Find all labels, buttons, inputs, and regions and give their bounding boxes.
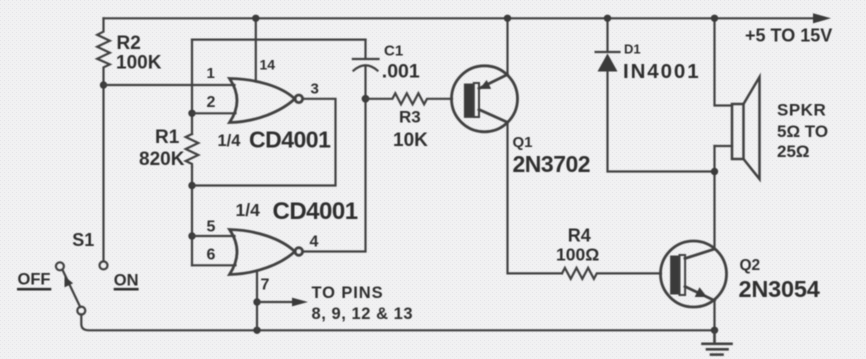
node pin7 bottom rail — [253, 327, 260, 334]
node pin2 — [188, 110, 195, 117]
wire pin6 input — [192, 264, 236, 266]
svg-text:OFF: OFF — [18, 271, 51, 289]
op-amp gate U1B NOR 1/4 CD4001 — [230, 230, 303, 275]
wire left vertical with R1 — [191, 40, 193, 134]
svg-text:.001: .001 — [382, 60, 420, 82]
svg-text:CD4001: CD4001 — [273, 198, 358, 225]
svg-text:6: 6 — [207, 247, 216, 264]
wire bottom rail — [81, 314, 714, 330]
svg-text:R3: R3 — [399, 107, 421, 126]
node Q2 emitter bottom rail — [711, 327, 718, 334]
svg-text:8, 9, 12 & 13: 8, 9, 12 & 13 — [312, 305, 414, 323]
node R1 bottom feedback — [188, 182, 195, 189]
wire pin5 input — [192, 235, 235, 237]
op-amp gate U1A NOR 1/4 CD4001 — [230, 79, 303, 123]
wire pin4 output up to C1 node — [303, 99, 366, 252]
svg-text:25Ω: 25Ω — [777, 142, 810, 161]
node C1-R3-pin4 — [362, 95, 370, 103]
speaker SPKR — [715, 18, 733, 105]
svg-text:4: 4 — [310, 233, 319, 250]
svg-text:5Ω TO: 5Ω TO — [777, 122, 828, 141]
wire Q2 collector up to speaker — [713, 146, 715, 249]
resistor R1 — [186, 134, 199, 167]
svg-text:ON: ON — [114, 271, 139, 289]
wire top rail +V — [104, 17, 818, 19]
diode D1 1N4001 — [606, 18, 608, 51]
svg-text:1: 1 — [207, 65, 215, 82]
svg-text:IN4001: IN4001 — [623, 60, 701, 83]
transistor Q2 2N3054 — [661, 241, 727, 307]
svg-text:TO PINS: TO PINS — [312, 284, 384, 302]
ground — [703, 330, 732, 354]
wire Q1 emitter to rail — [506, 18, 508, 74]
svg-text:R2: R2 — [117, 33, 141, 54]
wire feedback top line to C1 — [192, 38, 366, 40]
wire Q2 emitter to bottom rail — [713, 301, 715, 331]
resistor R3 — [366, 93, 453, 104]
node D1 rail — [604, 15, 611, 22]
node pin7 to-pins junction — [253, 298, 260, 305]
svg-text:3: 3 — [311, 80, 319, 97]
svg-text:2N3702: 2N3702 — [513, 151, 591, 177]
svg-text:1/4: 1/4 — [218, 132, 242, 150]
wire pin14 — [255, 18, 257, 81]
svg-text:2: 2 — [207, 94, 216, 111]
wire to-pins arrow — [257, 301, 295, 303]
switch S1 — [100, 261, 108, 269]
svg-text:D1: D1 — [624, 42, 641, 57]
svg-text:+5 TO 15V: +5 TO 15V — [745, 26, 832, 46]
svg-text:R1: R1 — [155, 127, 180, 148]
Q1 emitter arrow (PNP) — [480, 80, 492, 89]
node Q1 emitter rail — [504, 15, 511, 22]
node R2-pin1-switch junction — [100, 81, 107, 88]
svg-text:820K: 820K — [139, 149, 185, 170]
svg-text:SPKR: SPKR — [777, 101, 826, 120]
wire pin7 — [256, 273, 258, 331]
svg-text:14: 14 — [260, 57, 276, 73]
svg-text:C1: C1 — [384, 43, 403, 60]
svg-text:CD4001: CD4001 — [249, 127, 331, 153]
svg-text:5: 5 — [207, 219, 216, 236]
svg-text:S1: S1 — [72, 230, 94, 250]
svg-text:2N3054: 2N3054 — [739, 276, 820, 302]
wire Q1 collector down to R4 — [508, 122, 563, 273]
resistor R2 — [97, 18, 110, 260]
svg-text:100K: 100K — [116, 53, 162, 74]
svg-text:10K: 10K — [393, 130, 428, 151]
svg-text:1/4: 1/4 — [236, 200, 261, 220]
transistor Q1 2N3702 — [452, 66, 518, 132]
capacitor C1 — [364, 40, 366, 59]
svg-text:7: 7 — [261, 277, 270, 294]
label ON underline — [114, 288, 139, 291]
wire pin1 input — [104, 84, 235, 86]
node pin14 rail — [252, 15, 259, 22]
svg-text:R4: R4 — [568, 226, 591, 246]
svg-text:Q2: Q2 — [740, 257, 761, 274]
Q2 emitter arrow (NPN) — [695, 287, 707, 297]
node pin5 — [188, 232, 195, 239]
label OFF underline — [17, 288, 51, 291]
wire pin3 output feedback — [192, 99, 336, 186]
node D1 speaker Q2 — [711, 168, 718, 175]
wire pin2 input — [192, 112, 236, 114]
node speaker rail — [711, 15, 718, 22]
resistor R4 — [562, 268, 661, 279]
svg-text:100Ω: 100Ω — [556, 245, 599, 265]
svg-text:Q1: Q1 — [513, 134, 533, 151]
top rail arrowhead — [813, 13, 831, 23]
